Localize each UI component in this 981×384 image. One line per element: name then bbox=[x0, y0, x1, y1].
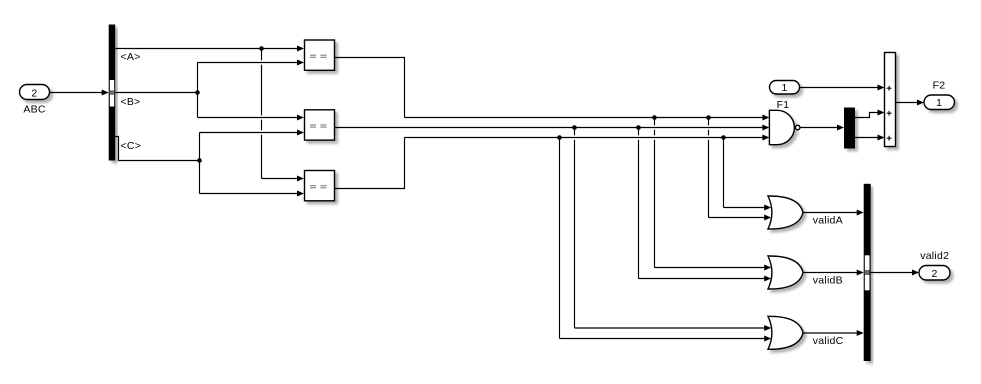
wire branch A==B down to OR validB input 1 bbox=[655, 118, 765, 268]
wire branch B==C down to OR validC input 1 bbox=[575, 128, 765, 329]
arrowhead relop1 input 2 bbox=[297, 60, 304, 66]
wire branch C to relational operator 2 input 2 bbox=[200, 132, 298, 134]
junction dot node A bbox=[259, 46, 264, 51]
arrowhead OR validA input 2 bbox=[764, 215, 771, 221]
svg-text:validB: validB bbox=[813, 275, 843, 287]
node label <B> bbox=[121, 96, 141, 108]
arrowhead sum input 3 bbox=[878, 135, 885, 141]
wire bus selector <A> to relational operator 1 input 1 bbox=[115, 48, 297, 50]
outport 2 valid2 bbox=[919, 250, 950, 280]
arrowhead OR validC input 1 bbox=[764, 325, 771, 331]
arrowhead outport F2 bbox=[917, 100, 924, 106]
junction dot A==C line left bbox=[557, 135, 562, 140]
outport 1 F2 bbox=[924, 80, 955, 110]
arrowhead OR validA input 1 bbox=[764, 205, 771, 211]
wire branch A==B down to OR validA input 2 bbox=[709, 118, 765, 218]
svg-text:<A>: <A> bbox=[121, 51, 141, 63]
wire branch A==C down to OR validC input 2 bbox=[560, 138, 765, 339]
arrowhead sum input 1 bbox=[878, 85, 885, 91]
arrowhead into bus selector bbox=[102, 90, 109, 96]
svg-text:valid2: valid2 bbox=[920, 250, 949, 262]
wire NAND F1 output to demux bbox=[799, 127, 838, 129]
constant 1 bbox=[770, 81, 800, 95]
NAND gate F1 bbox=[769, 99, 800, 145]
sum block bbox=[885, 53, 896, 147]
arrowhead relop2 input 2 bbox=[297, 130, 304, 136]
arrowhead OR validB input 1 bbox=[764, 265, 771, 271]
arrowhead OR validB input 2 bbox=[764, 276, 771, 282]
junction dot A==C line right bbox=[721, 135, 726, 140]
wire branch B to relational operator 1 input 2 bbox=[198, 62, 298, 64]
wire branch B vertical bbox=[197, 63, 199, 118]
bus creator bbox=[864, 184, 871, 361]
svg-text:validA: validA bbox=[813, 215, 843, 227]
arrowhead NAND F1 input 3 bbox=[762, 135, 769, 141]
arrowhead relop1 input 1 bbox=[297, 46, 304, 52]
arrowhead OR validC input 2 bbox=[764, 336, 771, 342]
svg-text:<C>: <C> bbox=[121, 140, 142, 152]
wire bus creator to outport valid2 bbox=[871, 272, 913, 274]
svg-text:F1: F1 bbox=[777, 99, 790, 111]
arrowhead NAND F1 input 2 bbox=[762, 125, 769, 131]
junction dot node C bbox=[197, 158, 202, 163]
wire relational operator 3 output to NAND F1 input 3 bbox=[335, 138, 764, 189]
svg-text:2: 2 bbox=[931, 268, 937, 280]
wire OR validC output to bus creator bbox=[803, 332, 858, 334]
node label <A> bbox=[121, 51, 141, 63]
demux bbox=[844, 108, 855, 149]
arrowhead bus creator input 2 bbox=[857, 270, 864, 276]
junction dot A==B line left bbox=[652, 115, 657, 120]
wire bus selector <B> to junction bbox=[115, 92, 197, 94]
wire branch C vertical bbox=[199, 133, 201, 194]
svg-text:2: 2 bbox=[31, 88, 37, 100]
OR gate validA bbox=[768, 196, 843, 229]
svg-text:ABC: ABC bbox=[23, 103, 46, 115]
arrowhead sum input 2 bbox=[878, 110, 885, 116]
inport 2 ABC bbox=[20, 85, 50, 116]
wire OR validA output to bus creator bbox=[803, 212, 858, 214]
relational operator ==3 bbox=[305, 171, 335, 201]
wire branch C to relational operator 3 input 2 bbox=[200, 193, 298, 195]
wire demux output 2 to sum input 3 bbox=[855, 137, 878, 139]
svg-text:<B>: <B> bbox=[121, 96, 141, 108]
junction dot node B bbox=[195, 90, 200, 95]
wire bus selector <C> to junction bbox=[115, 137, 199, 161]
wire branch B to relational operator 2 input 1 bbox=[198, 117, 298, 119]
junction dot B==C line left bbox=[572, 125, 577, 130]
relational operator ==1 bbox=[305, 40, 335, 70]
wire relational operator 1 output to NAND F1 input 1 bbox=[335, 58, 764, 118]
junction dot B==C line right bbox=[636, 125, 641, 130]
bus selector bbox=[109, 25, 116, 161]
arrowhead relop3 input 1 bbox=[297, 176, 304, 182]
svg-text:validC: validC bbox=[813, 335, 844, 347]
svg-text:F2: F2 bbox=[933, 80, 946, 92]
wire branch A down to relational operator 3 input 1 bbox=[262, 49, 298, 179]
arrowhead NAND F1 input 1 bbox=[762, 115, 769, 121]
wire OR validB output to bus creator bbox=[803, 272, 858, 274]
OR gate validC bbox=[768, 316, 844, 349]
arrowhead bus creator input 1 bbox=[857, 210, 864, 216]
svg-text:1: 1 bbox=[936, 97, 942, 109]
relational operator ==2 bbox=[305, 110, 335, 140]
wire relational operator 2 output to NAND F1 input 2 bbox=[335, 127, 764, 129]
wire inport ABC to bus selector bbox=[50, 92, 103, 94]
wire branch B==C down to OR validB input 2 bbox=[639, 128, 765, 279]
arrowhead into demux bbox=[837, 125, 844, 131]
arrowhead relop2 input 1 bbox=[297, 115, 304, 121]
arrowhead bus creator input 3 bbox=[857, 330, 864, 336]
arrowhead outport valid2 bbox=[912, 270, 919, 276]
OR gate validB bbox=[768, 256, 843, 289]
wire sum output to outport F2 bbox=[896, 102, 918, 104]
junction dot A==B line right bbox=[706, 115, 711, 120]
svg-text:1: 1 bbox=[781, 82, 787, 94]
wire branch A==C down to OR validA input 1 bbox=[724, 138, 765, 208]
wire demux output 1 to sum input 2 bbox=[855, 113, 878, 118]
wire constant 1 to sum input 1 bbox=[800, 87, 879, 89]
node label <C> bbox=[121, 140, 142, 152]
arrowhead relop3 input 2 bbox=[297, 191, 304, 197]
